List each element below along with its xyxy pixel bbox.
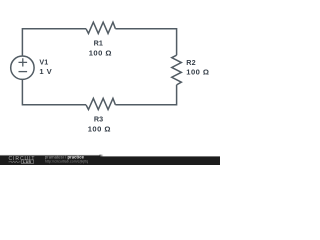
svg-text:http://circuitlab.com/c/jkjtfq: http://circuitlab.com/c/jkjtfq bbox=[45, 160, 88, 164]
wire: V1 top terminal to top-left corner to R1 left lead bbox=[22, 29, 86, 56]
watermark left block soft right edge bbox=[100, 155, 104, 157]
watermark left block soft top edge bbox=[0, 155, 100, 157]
svg-text:100 Ω: 100 Ω bbox=[89, 49, 112, 58]
svg-text:1 V: 1 V bbox=[39, 67, 52, 76]
svg-text:100 Ω: 100 Ω bbox=[186, 68, 209, 77]
V1 minus sign bbox=[19, 71, 28, 73]
watermark bar full width bbox=[0, 156, 220, 165]
wire: R2 bottom to bottom-right corner to R3 right lead bbox=[115, 85, 176, 105]
svg-text:R2: R2 bbox=[186, 58, 195, 67]
CircuitLab logo: LAB box bbox=[21, 160, 33, 163]
CircuitLab logo: resistor zigzag bbox=[9, 161, 21, 163]
V1 plus sign bbox=[19, 58, 28, 66]
svg-text:100 Ω: 100 Ω bbox=[88, 125, 111, 134]
resistor R2 bbox=[172, 55, 182, 85]
svg-text:LAB: LAB bbox=[23, 160, 32, 164]
svg-text:R3: R3 bbox=[94, 115, 103, 124]
resistor R3 bbox=[86, 98, 115, 109]
wire: R3 left lead to bottom-left corner up to V1 bottom terminal bbox=[22, 79, 86, 104]
watermark left block bbox=[0, 156, 100, 165]
wire: R1 right lead to top-right corner down to R2 top bbox=[115, 29, 176, 56]
svg-text:V1: V1 bbox=[39, 58, 48, 67]
voltage source V1 circle bbox=[11, 56, 34, 79]
resistor R1 bbox=[86, 22, 115, 33]
svg-text:R1: R1 bbox=[94, 39, 103, 48]
